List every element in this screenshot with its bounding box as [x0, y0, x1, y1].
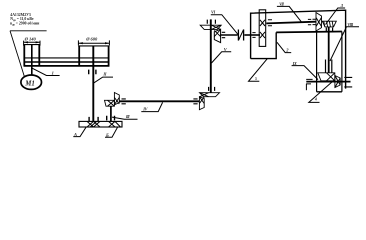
bearing shaft III [107, 116, 115, 121]
hatch under shaft II [87, 121, 100, 127]
motor M1 [21, 75, 42, 89]
gearbox bottom and right wall [251, 32, 277, 58]
bevel gear pair C2: gear on shaft V [200, 93, 220, 97]
label VIII [330, 27, 359, 61]
motor spec text block [10, 13, 40, 27]
bearing shaft IV right [193, 99, 197, 104]
support bar [79, 121, 122, 127]
pulley 1 (Ø140) [23, 44, 40, 46]
bearing lower shaft II [89, 117, 98, 121]
bevel gear pair P3: gear on shaft VII [316, 13, 322, 32]
label VII [277, 6, 302, 22]
tank inner vertical [316, 32, 318, 92]
label V [212, 52, 232, 63]
gear on shaft VII (X) [260, 20, 265, 26]
bevel gear pair C1: gear on shaft III [105, 100, 115, 106]
housing outer box [251, 10, 346, 88]
svg-text:VI: VI [211, 10, 216, 15]
shaft VI [220, 34, 238, 36]
shaft III vertical [110, 106, 112, 121]
tank frame: top edge [276, 31, 342, 34]
label 1 (belt drive) [32, 68, 59, 75]
shaft I (motor to pulley 1) [31, 45, 33, 76]
label Б [105, 127, 118, 137]
svg-text:Ø 600: Ø 600 [85, 36, 98, 41]
bearing IX right [344, 77, 352, 87]
label II [94, 77, 113, 83]
bevel gear pair C3: gear on shaft V [200, 25, 221, 29]
label IX [292, 66, 318, 80]
svg-text:VIII: VIII [347, 23, 353, 27]
dimension Ø600 [85, 36, 98, 41]
svg-text:4: 4 [314, 98, 317, 102]
shaft II [92, 46, 94, 122]
label III [112, 117, 138, 119]
hatch under shaft III [109, 121, 121, 127]
dimension Ø140 [24, 37, 37, 42]
shaft IV [119, 100, 199, 102]
label 5 [249, 58, 268, 81]
svg-text:1: 1 [52, 70, 54, 75]
svg-text:5: 5 [255, 77, 257, 81]
text underline [10, 30, 47, 32]
bearing VI in gearbox [252, 33, 255, 38]
gear on shaft VI (X) [260, 32, 265, 38]
bevel gear pair P4: gear on shaft IX [335, 76, 340, 88]
leader from text to motor [10, 31, 24, 77]
tank right wall [341, 32, 343, 92]
bevel gear pair C3: gear on shaft VI [214, 29, 220, 42]
tank bottom [317, 91, 342, 93]
bevel gear pair C2: gear on shaft IV [199, 97, 204, 110]
bevel gear pair C1: gear on shaft IV [114, 93, 119, 105]
bearing shaft IV left [122, 99, 126, 104]
bevel gear pair P3: gear on shaft VIII [322, 21, 336, 27]
label 2 [277, 42, 291, 52]
gear block rect [259, 10, 266, 47]
shaft VII [266, 22, 316, 24]
bearing shaft V bottom [209, 87, 215, 91]
label A [73, 127, 86, 137]
svg-text:Б: Б [105, 132, 109, 137]
bearing VII right [308, 19, 316, 24]
bearing shaft VI [222, 32, 225, 37]
bearing IX left [306, 79, 313, 84]
shaft IX [306, 81, 350, 83]
svg-text:А: А [73, 132, 77, 137]
svg-text:М1: М1 [24, 80, 35, 87]
bearing VII left [268, 20, 272, 26]
bearing shaft V top [207, 20, 215, 24]
bearing VIII lower [326, 60, 332, 73]
bearing VIII upper [326, 28, 332, 33]
pulley 2 (Ø600) [78, 45, 109, 47]
svg-text:Ø 140: Ø 140 [24, 37, 37, 42]
label 4 [309, 80, 334, 102]
shaft VIII [328, 27, 330, 73]
svg-text:IX: IX [292, 61, 297, 66]
label VI [211, 15, 238, 35]
coupling [238, 30, 243, 41]
bevel gear pair P4: gear on shaft VIII [318, 73, 335, 81]
label IV [141, 102, 162, 111]
bearing upper shaft II [89, 70, 96, 75]
svg-text:II: II [102, 72, 106, 77]
shaft V [210, 19, 212, 92]
label 3 [326, 8, 346, 25]
belt (3 lines) [24, 57, 110, 59]
